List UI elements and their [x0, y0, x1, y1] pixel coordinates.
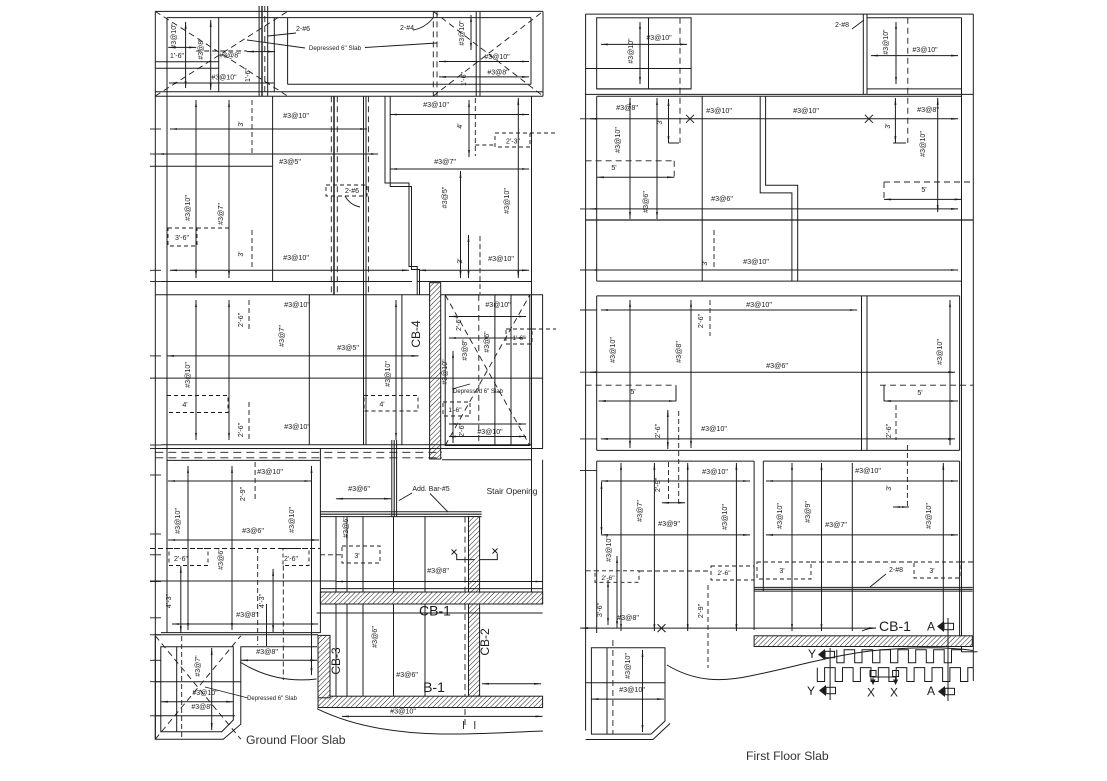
svg-text:#3@10": #3@10": [459, 20, 466, 46]
svg-text:3': 3': [779, 568, 784, 575]
svg-text:Depressed 6" Slab: Depressed 6" Slab: [309, 45, 362, 52]
label 5' dim band2 left: [586, 160, 675, 162]
svg-text:1'-6": 1'-6": [512, 335, 526, 342]
svg-text:2-#4: 2-#4: [400, 25, 414, 32]
dim line y166 left part: [150, 165, 272, 167]
beam CB-1 hatched: [320, 592, 542, 604]
depressed slab leader right: [365, 43, 437, 48]
svg-text:X: X: [867, 686, 875, 700]
dim line y481 bottom: [168, 480, 312, 482]
svg-text:#3@10": #3@10": [746, 300, 772, 309]
top-left panel right edge: [273, 18, 275, 92]
middle band bottom line 2: [155, 448, 543, 450]
dim line stair: [336, 498, 391, 500]
panel step boundary inner: [390, 96, 419, 294]
beam CB-2 hatched strip: [469, 517, 480, 697]
dim vertical top-left panel: [639, 22, 641, 84]
label 5' dim band3 right: [883, 385, 885, 401]
dim line y208 band2: [590, 208, 958, 210]
dim vertical top-left panel second: [210, 20, 212, 90]
break curve right drawing: [667, 648, 973, 680]
dim vertical dashed 2'-9: [254, 462, 256, 501]
section line A: [258, 6, 260, 96]
main body top line: [155, 95, 543, 97]
svg-text:#3@7": #3@7": [195, 655, 202, 677]
dim vertical band3 x630: [629, 300, 631, 448]
svg-text:#3@8": #3@8": [487, 70, 509, 77]
band1 dashed beam x331: [330, 96, 332, 294]
first floor outer left border: [585, 14, 587, 730]
svg-text:4': 4': [379, 400, 385, 409]
svg-text:#3@10": #3@10": [442, 359, 449, 385]
band1 beam pair x363-366: [363, 96, 365, 294]
comb upper row: [837, 650, 962, 663]
svg-text:#3@10": #3@10": [646, 35, 672, 42]
dashed dim tail: [196, 50, 247, 52]
X mark band2 right: [865, 115, 873, 123]
long line y378: [150, 377, 543, 379]
svg-text:#3@10": #3@10": [912, 47, 938, 54]
top band bottom y88: [597, 88, 691, 90]
connector line y634: [155, 634, 318, 636]
vertical x648 top band: [648, 18, 650, 89]
dim vertical band3 x950: [949, 300, 951, 445]
stair area top line: [442, 459, 532, 461]
leader CB-1: [862, 628, 876, 631]
svg-text:2-#6: 2-#6: [296, 26, 310, 33]
svg-text:#3@10": #3@10": [283, 111, 309, 120]
svg-text:CB-3: CB-3: [329, 647, 343, 675]
svg-text:#3@10": #3@10": [883, 29, 890, 55]
label 3'-6 dashed box: [168, 228, 197, 246]
bottom-left panel outline: [591, 648, 665, 734]
middle X panel dashed vertical: [478, 295, 480, 446]
dim vertical band4 x654: [653, 463, 655, 631]
svg-text:#3@6": #3@6": [711, 194, 733, 203]
band2 left edge: [596, 96, 598, 281]
dashed vertical x465: [464, 517, 466, 592]
svg-text:#3@10": #3@10": [918, 131, 927, 157]
dim vertical right panel: [470, 15, 472, 50]
svg-text:3': 3': [657, 119, 664, 124]
corner panel dashed vertical: [181, 636, 183, 737]
dim vertical band4 x601 upper: [601, 482, 603, 534]
leader 2-#6 band1: [345, 196, 360, 207]
stair edge triple vertical: [391, 440, 393, 517]
dim vertical bottom x311: [311, 466, 313, 675]
svg-text:5': 5': [611, 163, 617, 172]
band4 top line right: [763, 460, 959, 462]
band3 left edge: [596, 296, 598, 451]
svg-text:CB-1: CB-1: [419, 603, 451, 619]
dim vertical 4'-3 mid: [272, 569, 274, 632]
section line B: [261, 6, 263, 96]
dim vertical 4'-3 left: [180, 566, 182, 633]
label 3' box band4 right: [914, 562, 960, 578]
corner panel line y715: [155, 715, 235, 717]
svg-text:#3@8": #3@8": [617, 613, 639, 622]
svg-text:#3@10": #3@10": [284, 300, 310, 309]
top band bottom line: [155, 91, 543, 93]
dim line #3@8 right: [439, 76, 529, 78]
band4 left edge: [596, 461, 598, 633]
dim vertical top-left panel: [185, 22, 187, 88]
svg-text:#3@7": #3@7": [277, 325, 286, 347]
dashed tail 2'-3 right: [530, 132, 556, 134]
band3 top line: [597, 295, 960, 297]
band1 beam x334: [333, 96, 335, 294]
svg-text:3'-6": 3'-6": [175, 235, 189, 242]
svg-text:Add. Bar-#5: Add. Bar-#5: [412, 486, 449, 493]
dashed vertical x257 bottom: [257, 548, 259, 645]
label 4' dashed box left: [167, 396, 228, 413]
bottom band dashed top line 2: [155, 457, 442, 459]
dim arrow right y684: [482, 683, 541, 685]
svg-text:#3@10": #3@10": [171, 23, 178, 49]
dim line #3@7 right: [390, 168, 529, 170]
dim line y581: [336, 581, 543, 583]
svg-text:#3@10": #3@10": [623, 653, 632, 679]
dim vertical middle x229: [228, 300, 230, 440]
dashed connector y562: [811, 561, 914, 563]
dim vertical band3 x691: [690, 300, 692, 448]
dim line y270: [170, 269, 409, 271]
double beam x863-867: [862, 14, 864, 94]
dim vertical x667 band3: [667, 410, 669, 449]
svg-text:#3@10": #3@10": [485, 302, 511, 309]
label 2'-6 box band4 left: [595, 571, 639, 583]
first floor inner right border: [961, 18, 963, 646]
middle band vertical x402: [401, 295, 403, 445]
svg-text:#3@10": #3@10": [935, 339, 944, 365]
svg-text:#3@7": #3@7": [434, 157, 456, 166]
depressed slab rect bottom: [288, 83, 531, 85]
corner panel inner outline: [161, 647, 234, 732]
svg-text:#3@10": #3@10": [211, 75, 237, 82]
line y68 top band: [155, 67, 218, 69]
band1 vertical x272: [272, 96, 274, 281]
svg-text:#3@10": #3@10": [183, 195, 192, 221]
svg-text:3': 3': [885, 123, 892, 128]
svg-text:2'-6": 2'-6": [884, 423, 893, 438]
svg-text:#3@8": #3@8": [427, 566, 449, 575]
rebar bracket right of CB-2: [493, 549, 498, 554]
dim line y421 X panel: [449, 423, 526, 425]
dashed tail 2'-3 left: [475, 144, 495, 146]
bracket below B-1: [464, 721, 475, 729]
dim vertical band4 x621: [620, 463, 622, 631]
dim vertical band1 x229: [228, 100, 230, 278]
dashed vertical x283 bottom: [282, 566, 284, 681]
svg-text:Y: Y: [808, 647, 816, 661]
band3 right edge: [959, 296, 961, 451]
section cut A-A line: [947, 618, 949, 701]
dim line 1'-6 near section lines: [247, 51, 275, 53]
ground floor top border: [155, 10, 543, 12]
rebar bracket left of CB-2: [452, 550, 457, 555]
svg-text:#3@10": #3@10": [855, 466, 881, 475]
depressed leader bottom: [205, 687, 248, 698]
dim line y660: [241, 659, 317, 661]
middle X panel vertical x511: [510, 295, 512, 446]
svg-text:2'-6": 2'-6": [696, 313, 705, 328]
svg-text:3'-6": 3'-6": [595, 602, 604, 617]
label 3' dashed box stair: [342, 546, 380, 563]
corner panel X brace: [155, 636, 241, 739]
svg-text:#3@10": #3@10": [287, 507, 296, 533]
svg-text:#3@8": #3@8": [917, 105, 939, 114]
svg-text:#3@10": #3@10": [720, 504, 729, 530]
dim vertical band2 x657: [656, 98, 658, 219]
dashed dim vertical band4 x907: [906, 445, 908, 507]
dim line #3@10 right: [439, 61, 529, 63]
middle band right outer vertical: [542, 295, 544, 449]
svg-text:#3@10": #3@10": [702, 467, 728, 476]
dim line y436 X panel: [449, 436, 526, 438]
dashed connector stair box: [320, 554, 342, 556]
bolt connector: [873, 676, 896, 678]
dim line y481 band4 left: [601, 480, 750, 482]
svg-text:5': 5': [630, 387, 636, 396]
leader 2-#8 band4: [870, 574, 886, 587]
dashed vertical 3' right bottom: [479, 236, 481, 294]
dim line y270 band2: [590, 269, 958, 271]
dashed vertical x678 band3-4: [678, 411, 680, 503]
svg-text:2'-6": 2'-6": [717, 570, 731, 577]
band4 gap verticals: [753, 461, 755, 630]
bottom-left panel offset edge: [586, 724, 670, 740]
band4 right edge: [959, 461, 961, 637]
svg-text:#3@9": #3@9": [803, 501, 812, 523]
svg-text:#3@10": #3@10": [390, 707, 416, 716]
dashed line y385 right: [880, 384, 973, 386]
svg-text:#3@5": #3@5": [279, 157, 301, 166]
dim line bottom of top-left panel: [169, 82, 274, 84]
svg-text:#3@8": #3@8": [462, 339, 469, 361]
comb right end notch: [961, 646, 963, 652]
line y61 top band: [155, 61, 218, 63]
beam CB-1 hatched right drawing: [754, 636, 972, 647]
dashed dim vertical x708 band4: [707, 585, 709, 668]
dim vertical band2 x895: [894, 98, 896, 143]
svg-text:#3@10": #3@10": [423, 100, 449, 109]
dim vertical dashed 2'-6 bottom: [248, 402, 250, 442]
line below CB-1: [317, 612, 543, 614]
full line y220: [586, 219, 974, 221]
bolt X left: [870, 671, 876, 677]
break curve small: [240, 662, 317, 680]
svg-text:B-1: B-1: [423, 679, 445, 695]
svg-text:#3@10": #3@10": [488, 254, 514, 263]
bl panel vertical x607: [606, 648, 608, 734]
dashed dim vertical x714: [713, 230, 715, 270]
label 5' dim band2 right: [884, 181, 973, 183]
svg-text:3': 3': [457, 258, 464, 263]
comb lower row: [817, 668, 973, 682]
ground floor outer left border: [154, 11, 156, 739]
svg-text:Depressed 6" Slab: Depressed 6" Slab: [247, 696, 297, 702]
svg-text:#3@10": #3@10": [604, 536, 613, 562]
band2 step outer: [760, 96, 792, 281]
svg-text:2-#8: 2-#8: [889, 567, 903, 574]
svg-text:#3@9": #3@9": [658, 519, 680, 528]
X mark band2 left: [686, 115, 694, 123]
svg-text:#3@10": #3@10": [502, 188, 511, 214]
beam CB-1 top outline: [320, 588, 542, 590]
dim vertical band2 x937: [937, 98, 939, 212]
svg-text:#3@10": #3@10": [183, 362, 192, 388]
dim line y129 left: [170, 128, 367, 130]
svg-text:#3@6": #3@6": [216, 548, 225, 570]
label 2'-6 dashed box band4: [711, 566, 754, 580]
dim vertical dashed 2'-6 top: [248, 300, 250, 332]
band3 bottom line: [597, 449, 960, 451]
dashed dim vertical band4 x668: [668, 462, 670, 503]
svg-text:#3@6": #3@6": [341, 516, 350, 538]
bl panel dim vertical: [642, 650, 644, 732]
svg-text:1'-6": 1'-6": [170, 53, 184, 60]
dim line below B-1: [342, 715, 543, 717]
svg-text:1'-6": 1'-6": [245, 68, 252, 82]
band2 dim line y118: [590, 118, 958, 120]
bl panel dashed vertical: [612, 640, 614, 734]
band1 dashed x368: [367, 96, 369, 294]
dashed dim vertical band3 x710: [709, 300, 711, 336]
band1 dashed beam x337: [336, 96, 338, 294]
svg-text:#3@10": #3@10": [706, 106, 732, 115]
svg-text:#3@10": #3@10": [775, 503, 784, 529]
svg-text:First Floor Slab: First Floor Slab: [746, 749, 829, 763]
label 5' dim band3 left: [675, 385, 677, 401]
dim vertical band4 x687: [687, 463, 689, 631]
dim line y338 X panel: [449, 337, 526, 339]
dim vertical band4 x617: [616, 556, 618, 628]
dim line y114 right panel: [390, 114, 529, 116]
svg-text:2-#6: 2-#6: [345, 188, 359, 195]
first floor outer top border: [586, 13, 974, 15]
svg-text:1'-6": 1'-6": [461, 72, 468, 86]
dim line bl y699: [591, 698, 664, 700]
dim line y438 band3: [601, 438, 955, 440]
dim vertical middle left x196: [195, 300, 197, 440]
add bar leader left: [399, 493, 412, 501]
label 1'-6 dashed box X panel: [506, 329, 532, 344]
top-right X panel right edge: [530, 18, 532, 85]
svg-text:#3@6": #3@6": [641, 191, 650, 213]
svg-text:#3@10": #3@10": [743, 257, 769, 266]
leader 2-#8 top: [852, 20, 864, 29]
dim vertical bottom x232: [231, 466, 233, 630]
svg-text:2'-6": 2'-6": [236, 312, 245, 327]
first floor outer right border: [972, 14, 974, 681]
corner panel dim vertical: [211, 648, 213, 730]
left margin ticks: [150, 128, 161, 130]
label 2'-6 dashed box bottom mid: [283, 549, 309, 566]
svg-text:#3@8": #3@8": [198, 38, 205, 60]
svg-text:#3@7": #3@7": [635, 500, 644, 522]
bottom band dashed top line: [155, 451, 442, 453]
ground floor inner left border: [166, 18, 168, 633]
svg-text:#3@5": #3@5": [337, 343, 359, 352]
svg-text:#3@8": #3@8": [236, 610, 258, 619]
verticals between stair and B-1: [335, 517, 337, 696]
dim line y540 bottom: [168, 539, 319, 541]
svg-text:Y: Y: [807, 684, 815, 698]
band1 right panel right edge: [531, 96, 533, 594]
svg-text:3': 3': [884, 485, 893, 491]
svg-text:5': 5': [921, 185, 927, 194]
svg-text:3': 3': [354, 553, 359, 560]
svg-text:1'-6": 1'-6": [448, 407, 462, 414]
dim line y44 top-left panel: [601, 43, 687, 45]
dashed connector y568: [639, 570, 711, 572]
dim vertical 3' band1 bottom: [251, 230, 253, 270]
middle X panel vertical x494.9: [494, 295, 496, 446]
svg-text:#3@10": #3@10": [608, 337, 617, 363]
vertical band4 x852: [851, 463, 853, 631]
svg-text:#3@10": #3@10": [613, 127, 622, 153]
dim line y481 band4 right: [766, 480, 958, 482]
svg-text:2'-6": 2'-6": [456, 317, 463, 331]
svg-text:#3@10": #3@10": [192, 690, 218, 697]
dim vertical band1 left: [195, 100, 197, 278]
band1 bottom line: [161, 281, 412, 283]
svg-text:5': 5': [917, 388, 923, 397]
section cut Y-Y line: [829, 648, 831, 700]
svg-text:A: A: [927, 620, 935, 634]
svg-text:#3@10": #3@10": [257, 467, 283, 476]
svg-text:CB-4: CB-4: [409, 320, 423, 348]
svg-text:#3@10": #3@10": [924, 503, 933, 529]
svg-text:2-#8: 2-#8: [835, 22, 849, 29]
bottom panel bottom edge: [161, 632, 320, 634]
dim line y55 top-right: [871, 55, 958, 57]
dim line y624 bottom: [172, 623, 318, 625]
dim vertical band4 x943: [942, 463, 944, 631]
top band full bottom y94: [586, 93, 974, 95]
svg-text:4'-3": 4'-3": [257, 593, 266, 608]
svg-text:#3@10": #3@10": [628, 38, 635, 64]
svg-text:#3@6": #3@6": [242, 526, 264, 535]
dim line y310 band3: [601, 309, 857, 311]
dim vertical 3' right bottom: [468, 235, 470, 278]
svg-text:#3@8": #3@8": [219, 53, 241, 60]
svg-text:#3@8": #3@8": [616, 103, 638, 112]
svg-text:2'-9": 2'-9": [238, 486, 247, 501]
section A flag top: [937, 621, 944, 632]
svg-text:2'-6": 2'-6": [653, 423, 662, 438]
right outer vertical stair area: [542, 460, 544, 604]
top-left panel X brace: [155, 11, 287, 96]
svg-text:#3@10": #3@10": [383, 361, 392, 387]
band2 vertical x702: [701, 96, 703, 281]
dim vertical band2 x630: [629, 98, 631, 219]
dim line y356 middle: [167, 355, 419, 357]
section Y flag bottom: [819, 685, 826, 696]
svg-text:X: X: [890, 686, 898, 700]
top-right panel bottom: [867, 88, 962, 90]
depressed slab leader left: [247, 40, 305, 48]
corner panel dim y701: [161, 701, 234, 703]
dashed dim vertical x896 band3: [895, 405, 897, 440]
band3 gap verticals: [861, 296, 863, 451]
dim line y535 band4 right: [766, 534, 958, 536]
band separator line: [155, 294, 543, 296]
middle band beam pair x363: [363, 295, 365, 445]
svg-text:4': 4': [457, 123, 464, 128]
line y581 left panel: [150, 580, 336, 582]
svg-text:#3@10": #3@10": [173, 508, 182, 534]
